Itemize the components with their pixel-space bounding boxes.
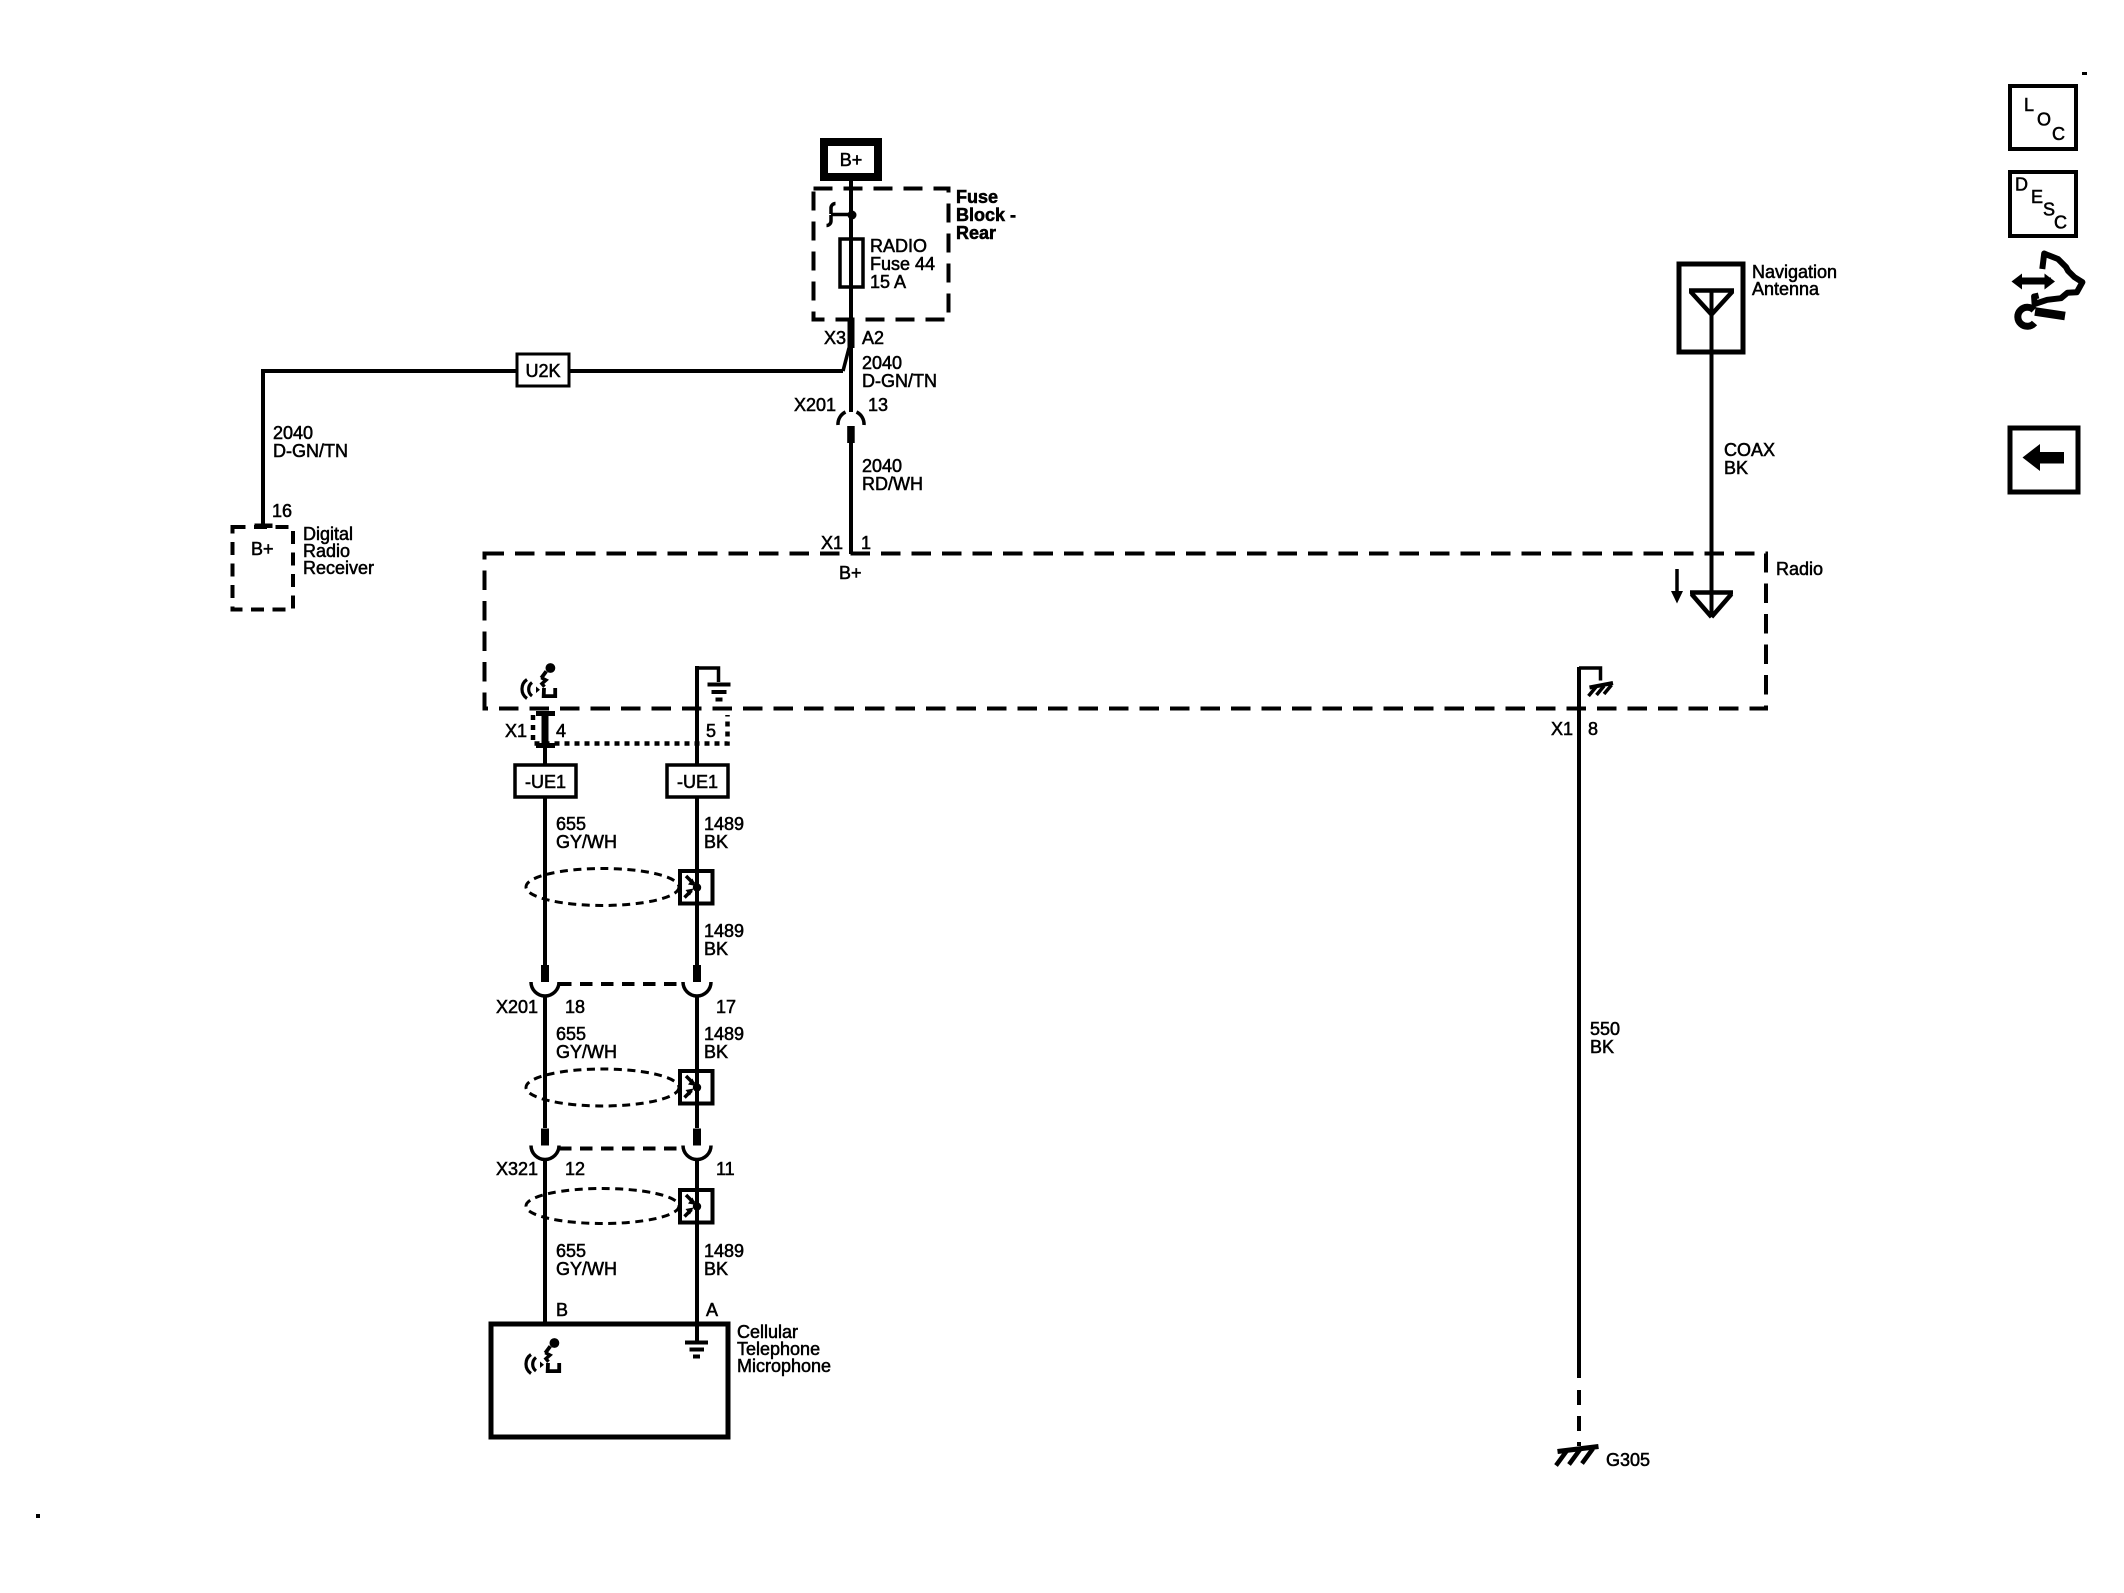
svg-text:BK: BK	[704, 1042, 728, 1062]
svg-text:15 A: 15 A	[870, 272, 906, 292]
svg-text:X1: X1	[821, 533, 843, 553]
svg-text:1: 1	[861, 533, 871, 553]
svg-text:B: B	[556, 1300, 568, 1320]
svg-text:X1: X1	[1551, 719, 1573, 739]
svg-text:655: 655	[556, 1024, 586, 1044]
svg-text:BK: BK	[704, 1259, 728, 1279]
svg-text:B+: B+	[839, 563, 862, 583]
svg-text:Rear: Rear	[956, 223, 996, 243]
svg-text:Radio: Radio	[1776, 559, 1823, 579]
svg-text:1489: 1489	[704, 1241, 744, 1261]
svg-text:X3: X3	[824, 328, 846, 348]
svg-text:12: 12	[565, 1159, 585, 1179]
svg-text:BK: BK	[1590, 1037, 1614, 1057]
svg-text:X1: X1	[505, 721, 527, 741]
svg-text:O: O	[2037, 110, 2051, 130]
svg-text:2040: 2040	[862, 456, 902, 476]
svg-text:GY/WH: GY/WH	[556, 1259, 617, 1279]
svg-text:8: 8	[1588, 719, 1598, 739]
svg-text:17: 17	[716, 997, 736, 1017]
svg-text:RADIO: RADIO	[870, 236, 927, 256]
svg-text:D-GN/TN: D-GN/TN	[862, 371, 937, 391]
svg-text:X201: X201	[794, 395, 836, 415]
svg-text:COAX: COAX	[1724, 440, 1775, 460]
svg-text:D-GN/TN: D-GN/TN	[273, 441, 348, 461]
svg-text:1489: 1489	[704, 814, 744, 834]
svg-text:Fuse 44: Fuse 44	[870, 254, 935, 274]
svg-text:1489: 1489	[704, 921, 744, 941]
svg-text:L: L	[2024, 95, 2034, 115]
svg-text:E: E	[2031, 187, 2043, 207]
svg-text:Fuse: Fuse	[956, 187, 998, 207]
svg-text:BK: BK	[704, 939, 728, 959]
svg-text:B+: B+	[840, 150, 863, 170]
svg-text:Microphone: Microphone	[737, 1356, 831, 1376]
svg-text:X321: X321	[496, 1159, 538, 1179]
svg-text:U2K: U2K	[525, 361, 560, 381]
svg-text:RD/WH: RD/WH	[862, 474, 923, 494]
svg-text:A: A	[706, 1300, 718, 1320]
svg-text:D: D	[2015, 175, 2028, 195]
svg-text:16: 16	[272, 501, 292, 521]
svg-text:C: C	[2052, 124, 2065, 144]
svg-text:BK: BK	[704, 832, 728, 852]
svg-text:2040: 2040	[862, 353, 902, 373]
svg-text:11: 11	[716, 1159, 735, 1179]
svg-text:G305: G305	[1606, 1450, 1650, 1470]
svg-text:13: 13	[868, 395, 888, 415]
svg-text:550: 550	[1590, 1019, 1620, 1039]
svg-text:655: 655	[556, 814, 586, 834]
svg-text:-UE1: -UE1	[677, 772, 718, 792]
svg-text:Receiver: Receiver	[303, 558, 374, 578]
svg-text:2040: 2040	[273, 423, 313, 443]
svg-text:18: 18	[565, 997, 585, 1017]
svg-text:4: 4	[556, 721, 566, 741]
svg-text:-UE1: -UE1	[525, 772, 566, 792]
svg-text:1489: 1489	[704, 1024, 744, 1044]
svg-text:X201: X201	[496, 997, 538, 1017]
svg-text:BK: BK	[1724, 458, 1748, 478]
svg-text:655: 655	[556, 1241, 586, 1261]
svg-text:C: C	[2054, 213, 2067, 233]
svg-text:Block -: Block -	[956, 205, 1016, 225]
svg-text:Antenna: Antenna	[1752, 279, 1820, 299]
svg-text:GY/WH: GY/WH	[556, 1042, 617, 1062]
svg-text:B+: B+	[251, 539, 274, 559]
svg-text:A2: A2	[862, 328, 884, 348]
svg-text:GY/WH: GY/WH	[556, 832, 617, 852]
svg-text:5: 5	[706, 721, 716, 741]
